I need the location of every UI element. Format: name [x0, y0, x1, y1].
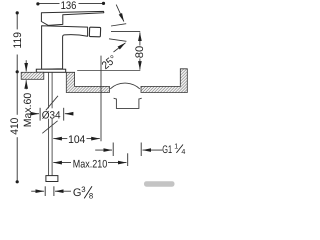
drain outline bracket: [114, 98, 142, 108]
hose end nut: [46, 176, 58, 182]
dimension 80: [139, 32, 141, 69]
pipe break diagonal 2: [42, 121, 57, 134]
25 deg upper arrow: [116, 5, 124, 22]
deck level reference line: [77, 70, 140, 72]
svg-text:136: 136: [61, 0, 77, 12]
svg-text:Max.210: Max.210: [73, 158, 108, 170]
right ceramic stepped section: [66, 72, 109, 92]
25 deg upper leg: [111, 24, 126, 26]
dimension 119: [16, 13, 18, 30]
svg-text:3: 3: [81, 185, 85, 194]
dimension diameter 34: [39, 108, 41, 121]
right ceramic strip and wall riser: [141, 69, 187, 93]
watermark: [144, 181, 175, 187]
svg-text:410: 410: [9, 118, 21, 135]
dimension 104: [53, 138, 67, 140]
svg-text:G1: G1: [162, 144, 172, 156]
svg-text:119: 119: [12, 32, 24, 49]
supply pipe: [49, 72, 53, 175]
dimension 410: [16, 72, 18, 115]
deck left hatched section: [21, 72, 44, 79]
svg-text:80: 80: [134, 46, 146, 59]
dimension Max.210: [53, 162, 71, 164]
bowl arc: [110, 83, 140, 89]
104 extension line: [100, 56, 102, 142]
dimension G 3/8: [44, 186, 46, 196]
lever handle: [41, 11, 103, 25]
aerator block: [89, 27, 100, 37]
faucet body with spout: [42, 26, 88, 69]
svg-text:4: 4: [181, 147, 185, 156]
svg-text:104: 104: [68, 134, 85, 146]
pipe break diagonal 1: [46, 96, 58, 111]
svg-text:1: 1: [174, 142, 178, 151]
svg-text:Max.60: Max.60: [22, 93, 34, 128]
25 deg axis line / 80 top reference: [111, 31, 140, 33]
dimension G1 1/4: [112, 143, 114, 157]
svg-text:8: 8: [89, 192, 93, 200]
base flange: [36, 69, 65, 72]
svg-text:Ø34: Ø34: [42, 109, 61, 121]
25 deg lower leg: [109, 39, 126, 42]
dimension 136 end dots: [36, 2, 39, 5]
25 deg lower arrow: [114, 43, 126, 52]
dimension 136 line: [38, 3, 103, 5]
dimension Max.60: [25, 60, 27, 71]
svg-text:G: G: [73, 187, 82, 199]
